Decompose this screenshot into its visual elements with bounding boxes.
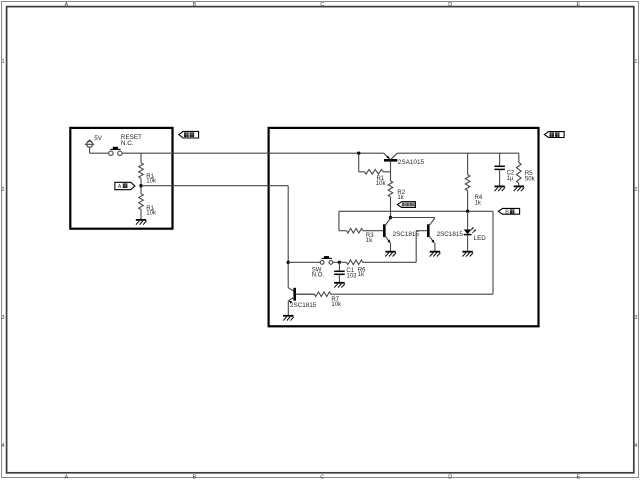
svg-text:103: 103 xyxy=(346,273,357,279)
svg-text:B: B xyxy=(192,474,196,480)
svg-text:C: C xyxy=(320,2,324,8)
svg-text:3: 3 xyxy=(1,315,4,321)
svg-text:2: 2 xyxy=(634,187,637,193)
svg-text:1k: 1k xyxy=(397,195,404,201)
svg-text:1: 1 xyxy=(1,59,4,65)
svg-text:2SC1815: 2SC1815 xyxy=(393,231,420,238)
svg-text:4: 4 xyxy=(634,443,637,449)
svg-text:1: 1 xyxy=(634,59,637,65)
svg-text:1k: 1k xyxy=(475,200,482,206)
svg-text:A: A xyxy=(118,184,122,190)
svg-text:3: 3 xyxy=(634,315,637,321)
svg-text:A: A xyxy=(64,474,68,480)
svg-text:B: B xyxy=(505,209,509,215)
svg-text:N.C.: N.C. xyxy=(121,140,134,147)
svg-text:LED: LED xyxy=(474,235,487,242)
svg-text:2SC1815: 2SC1815 xyxy=(437,231,464,238)
svg-text:C: C xyxy=(320,474,324,480)
svg-text:5V: 5V xyxy=(94,135,103,142)
svg-text:B: B xyxy=(192,2,196,8)
svg-text:N.O.: N.O. xyxy=(312,273,325,279)
svg-text:D: D xyxy=(448,2,452,8)
svg-text:D: D xyxy=(448,474,452,480)
svg-text:1µ: 1µ xyxy=(507,176,514,182)
svg-text:10k: 10k xyxy=(146,211,157,217)
svg-text:E: E xyxy=(576,2,580,8)
svg-text:50k: 50k xyxy=(525,176,536,182)
svg-text:4: 4 xyxy=(1,443,4,449)
svg-text:10k: 10k xyxy=(376,181,387,187)
svg-text:2SA1015: 2SA1015 xyxy=(398,159,425,166)
svg-text:A: A xyxy=(64,2,68,8)
svg-text:2: 2 xyxy=(1,187,4,193)
svg-text:10k: 10k xyxy=(146,178,157,184)
svg-text:1k: 1k xyxy=(358,272,365,278)
svg-text:E: E xyxy=(576,474,580,480)
svg-text:10k: 10k xyxy=(331,302,342,308)
svg-text:1k: 1k xyxy=(366,238,373,244)
svg-text:2SC1815: 2SC1815 xyxy=(290,302,317,309)
